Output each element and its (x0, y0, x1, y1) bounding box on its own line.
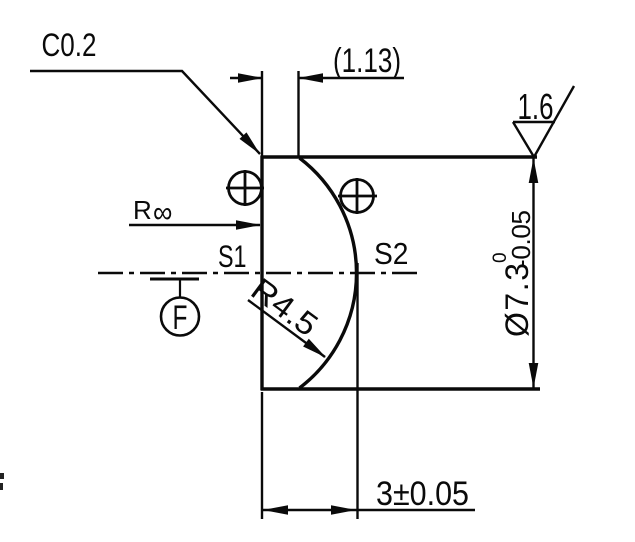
svg-text:∞: ∞ (153, 196, 172, 230)
svg-text:-0.05: -0.05 (506, 210, 536, 268)
svg-text:R4.5: R4.5 (245, 271, 325, 343)
svg-text:(1.13): (1.13) (333, 42, 401, 80)
svg-text:C0.2: C0.2 (42, 27, 97, 63)
svg-text:1.6: 1.6 (518, 86, 554, 127)
svg-text:F: F (173, 299, 188, 337)
svg-text:3±0.05: 3±0.05 (376, 475, 469, 513)
svg-text:Ø7.3: Ø7.3 (499, 263, 535, 337)
svg-text:R: R (133, 195, 152, 225)
svg-text:S2: S2 (374, 236, 409, 271)
svg-text:S1: S1 (218, 238, 247, 274)
